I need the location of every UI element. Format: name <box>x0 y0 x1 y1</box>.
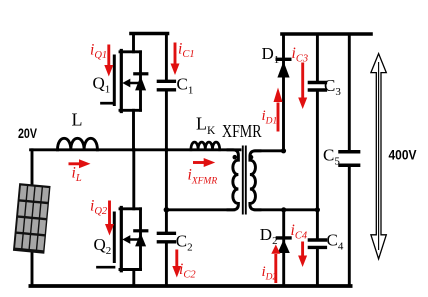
svg-text:20V: 20V <box>18 125 37 141</box>
svg-text:L: L <box>72 110 83 130</box>
svg-text:XFMR: XFMR <box>222 121 262 141</box>
svg-text:400V: 400V <box>389 147 418 163</box>
